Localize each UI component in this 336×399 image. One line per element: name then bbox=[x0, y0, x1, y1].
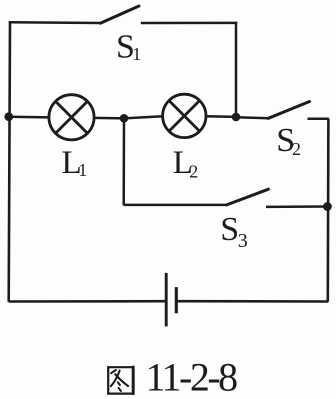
switch S3 blade bbox=[227, 189, 269, 205]
wire: middle left segment (node A to lamp L1) bbox=[9, 115, 49, 118]
wire: S2 right contact stub bbox=[308, 118, 329, 121]
lamp L2 bbox=[163, 94, 206, 137]
wire: S1 right contact to top-right corner bbox=[141, 22, 237, 25]
switch S1 blade bbox=[100, 6, 139, 23]
wire: left vertical (node A column) bbox=[9, 22, 10, 302]
wire: right vertical from top corner down to junction C bbox=[235, 22, 238, 117]
wire: top left segment to S1 hinge bbox=[9, 21, 101, 24]
svg-text:11-2-8: 11-2-8 bbox=[146, 355, 238, 399]
svg-text:2: 2 bbox=[292, 139, 301, 159]
lamp L1 bbox=[49, 95, 94, 140]
wire: right outer vertical bbox=[326, 119, 329, 302]
wire: bottom right segment from battery bbox=[178, 300, 329, 303]
wire: junction C to S2 hinge bbox=[236, 117, 269, 118]
battery cell: short plate (-) bbox=[175, 287, 178, 313]
junction node B (between L1 and L2, dot) bbox=[120, 114, 129, 123]
switch S2 blade bbox=[268, 102, 309, 119]
wire: S3 right contact to junction D bbox=[266, 205, 328, 208]
svg-text:3: 3 bbox=[238, 230, 248, 252]
wire: bottom left segment to battery bbox=[9, 300, 166, 303]
battery cell: long plate (+) bbox=[165, 273, 168, 327]
wire: middle segment junction B to lamp L2 bbox=[124, 116, 163, 118]
caption character 图 (drawn) bbox=[108, 367, 133, 394]
svg-text:S: S bbox=[220, 211, 239, 248]
wire: S3 branch vertical from junction B bbox=[122, 118, 125, 205]
junction node A (left, dot) bbox=[4, 112, 13, 121]
svg-text:1: 1 bbox=[78, 160, 87, 180]
junction node D (right, dot) bbox=[323, 202, 332, 211]
svg-text:2: 2 bbox=[189, 161, 198, 181]
svg-text:1: 1 bbox=[132, 44, 141, 64]
junction node C (dot at top-right branch point) bbox=[232, 113, 241, 122]
wire: S3 horizontal to hinge bbox=[124, 204, 227, 207]
wire: middle segment L2 to junction C bbox=[206, 115, 236, 118]
wire: middle segment L1 to junction B bbox=[94, 117, 124, 120]
